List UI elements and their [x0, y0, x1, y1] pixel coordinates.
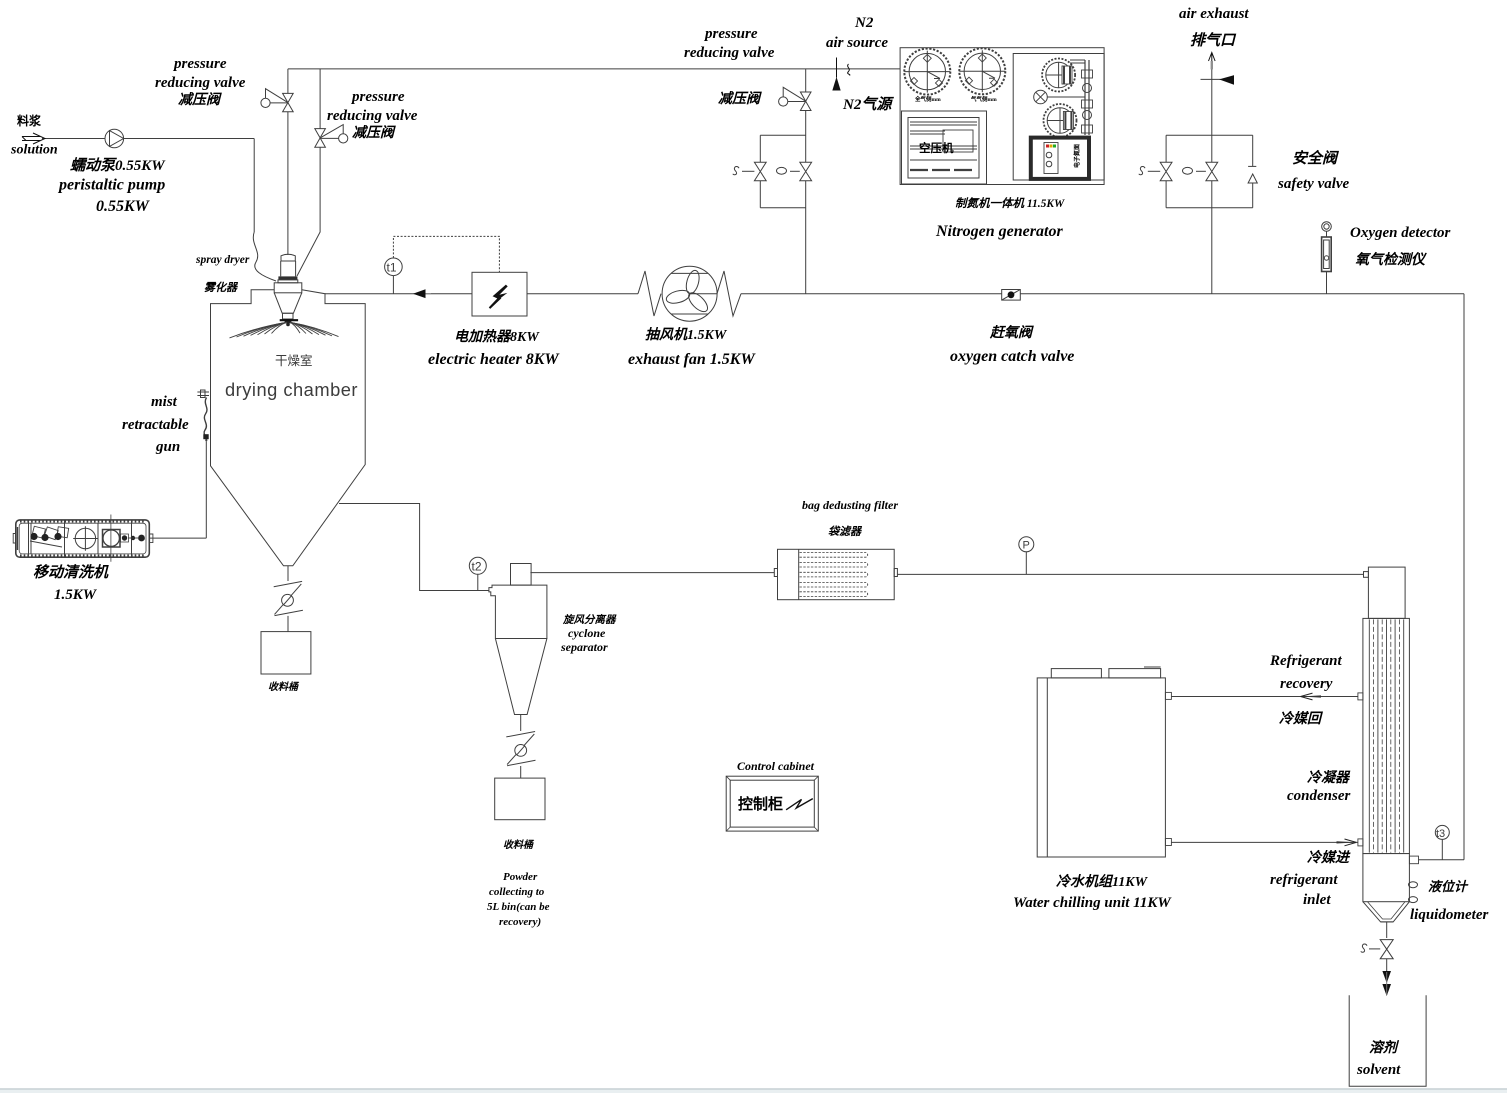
mobile washing machine	[13, 515, 153, 562]
svg-text:N2气源: N2气源	[842, 96, 894, 113]
wire valve to cyclone bin	[520, 766, 522, 778]
air compressor box	[902, 111, 987, 184]
inlet arrow	[1337, 841, 1357, 843]
svg-text:减压阀: 减压阀	[352, 124, 396, 141]
svg-text:cyclone: cyclone	[568, 626, 606, 640]
svg-text:5L bin(can be: 5L bin(can be	[487, 901, 550, 913]
svg-text:Oxygen detector: Oxygen detector	[1350, 225, 1451, 241]
svg-text:air exhaust: air exhaust	[1179, 6, 1249, 22]
svg-text:收料桶: 收料桶	[503, 839, 535, 851]
t1 sensor	[385, 258, 403, 276]
svg-text:recovery): recovery)	[499, 916, 541, 928]
svg-text:recovery: recovery	[1280, 676, 1333, 692]
wire branch1 down to atomizer	[287, 69, 289, 255]
wire t2 drop	[477, 574, 479, 590]
svg-text:bag dedusting filter: bag dedusting filter	[802, 498, 898, 512]
svg-text:t3: t3	[1436, 828, 1445, 840]
svg-text:排气口: 排气口	[1190, 32, 1237, 49]
bottom window edge strip	[0, 1088, 1507, 1089]
svg-text:P: P	[1023, 540, 1030, 552]
svg-text:液位计: 液位计	[1428, 879, 1469, 894]
cyclone separator	[489, 564, 547, 715]
svg-text:冷媒回: 冷媒回	[1279, 710, 1324, 727]
svg-text:Nitrogen generator: Nitrogen generator	[935, 223, 1063, 240]
svg-text:Refrigerant: Refrigerant	[1269, 653, 1343, 669]
spray fan lines	[230, 320, 339, 338]
svg-text:1.5KW: 1.5KW	[54, 587, 98, 603]
control cabinet	[726, 776, 818, 831]
wire refrigerant recovery line	[1171, 696, 1357, 698]
wire t1 sensor loop	[392, 276, 394, 294]
svg-text:t2: t2	[472, 560, 482, 574]
solvent tank	[1349, 995, 1426, 1086]
solution inlet arrow	[22, 133, 45, 144]
svg-text:0.55KW: 0.55KW	[96, 198, 151, 215]
wire condenser drain	[1386, 922, 1388, 938]
safety valve bypass box	[1166, 135, 1253, 207]
valve V3 left of bypass	[1139, 162, 1172, 180]
peristaltic pump P1	[105, 129, 124, 148]
svg-text:condenser: condenser	[1287, 788, 1350, 804]
air exhaust arrow	[1209, 53, 1216, 62]
membrane gauge 1	[1042, 59, 1075, 92]
flexible joint left of fan	[638, 271, 661, 316]
svg-text:全气侧mm: 全气侧mm	[914, 95, 941, 103]
svg-text:liquidometer: liquidometer	[1410, 907, 1488, 923]
wire P gauge drop	[1025, 552, 1027, 575]
svg-text:pressure: pressure	[172, 56, 227, 72]
svg-text:雾化器: 雾化器	[204, 281, 239, 294]
svg-text:oxygen catch valve: oxygen catch valve	[950, 348, 1074, 365]
svg-text:collecting to: collecting to	[489, 886, 545, 898]
svg-text:氧气检测仪: 氧气检测仪	[1355, 251, 1427, 268]
svg-text:收料桶: 收料桶	[268, 681, 300, 693]
pressure reducing valve PRV1	[261, 89, 293, 112]
exhaust fan F1	[662, 266, 717, 321]
svg-text:冷水机组11KW: 冷水机组11KW	[1056, 873, 1149, 890]
svg-text:drying chamber: drying chamber	[225, 379, 358, 400]
wire main nitrogen loop pipe	[741, 294, 1464, 860]
svg-text:separator: separator	[560, 640, 608, 654]
gauge blower 1	[904, 49, 950, 95]
valve V2 bypass right	[777, 162, 812, 180]
svg-text:reducing valve: reducing valve	[155, 75, 246, 91]
oxygen detector	[1322, 222, 1332, 232]
svg-text:冷凝器: 冷凝器	[1307, 769, 1351, 786]
nitrogen generator cabinet	[900, 48, 1104, 185]
wire bag filter to condenser	[897, 573, 1363, 575]
svg-text:安全阀: 安全阀	[1292, 149, 1340, 167]
water chilling unit	[1037, 667, 1171, 857]
N2 source connection tick	[833, 58, 850, 91]
flow arrow into chamber	[418, 293, 431, 295]
svg-text:旋风分离器: 旋风分离器	[562, 613, 617, 626]
wire t3 drop	[1441, 839, 1443, 859]
svg-text:空压机: 空压机	[919, 141, 954, 155]
spray dryer atomizer	[274, 254, 302, 326]
wire refrigerant inlet line	[1171, 841, 1357, 843]
svg-text:safety valve: safety valve	[1277, 176, 1350, 192]
svg-text:制氮机一体机 11.5KW: 制氮机一体机 11.5KW	[955, 197, 1065, 210]
svg-text:air source: air source	[826, 35, 888, 51]
svg-text:减压阀: 减压阀	[718, 90, 762, 107]
collection bin chamber	[261, 632, 311, 674]
svg-text:solution: solution	[10, 143, 58, 158]
wire chamber drain	[287, 566, 289, 581]
valve V4 middle of bypass	[1183, 162, 1218, 180]
svg-text:reducing valve: reducing valve	[327, 108, 418, 124]
svg-text:reducing valve: reducing valve	[684, 45, 775, 61]
svg-text:抽风机1.5KW: 抽风机1.5KW	[645, 326, 728, 343]
condenser	[1358, 567, 1419, 922]
svg-text:Water chilling unit 11KW: Water chilling unit 11KW	[1013, 895, 1172, 911]
bag dedusting filter	[774, 549, 897, 599]
wire valve to chamber bin	[287, 616, 289, 632]
svg-text:减压阀: 减压阀	[178, 91, 222, 108]
svg-text:电加热器8KW: 电加热器8KW	[454, 328, 540, 345]
svg-text:蠕动泵0.55KW: 蠕动泵0.55KW	[70, 157, 166, 174]
svg-text:inlet: inlet	[1303, 892, 1331, 908]
drying chamber	[211, 290, 366, 566]
svg-text:solvent: solvent	[1356, 1062, 1401, 1078]
svg-text:Powder: Powder	[503, 871, 538, 883]
svg-text:refrigerant: refrigerant	[1270, 872, 1338, 888]
svg-text:peristaltic pump: peristaltic pump	[57, 177, 165, 194]
wire drain arrows	[1386, 959, 1388, 972]
piping right column	[1085, 60, 1089, 135]
small round valve	[1034, 90, 1048, 104]
svg-text:electric heater 8KW: electric heater 8KW	[428, 351, 560, 368]
svg-text:干燥室: 干燥室	[275, 353, 313, 368]
wire chamber outlet to cyclone	[339, 504, 489, 591]
svg-text:气气侧mm: 气气侧mm	[970, 95, 997, 103]
pressure reducing valve PRV3	[779, 87, 811, 110]
wire heater to fan	[527, 293, 638, 295]
svg-text:spray dryer: spray dryer	[195, 254, 250, 266]
pressure reducing valve PRV2	[315, 125, 348, 148]
wire gun supply riser	[149, 441, 206, 538]
wire cyclone drain	[520, 715, 522, 732]
wire solution feed line	[42, 138, 105, 140]
wire hot air pipe heater to chamber	[325, 293, 472, 295]
slide valve chamber drain	[274, 581, 303, 615]
svg-text:袋滤器: 袋滤器	[828, 525, 863, 538]
oxygen catch valve	[1002, 290, 1021, 301]
wire branch2	[297, 69, 320, 276]
wire exhaust riser	[1211, 69, 1213, 294]
svg-text:pressure: pressure	[703, 26, 758, 42]
P gauge	[1019, 537, 1034, 552]
svg-text:N2: N2	[854, 15, 874, 31]
svg-text:retractable: retractable	[122, 417, 189, 433]
gauge blower 2	[959, 48, 1005, 94]
recovery arrow	[1301, 695, 1321, 697]
svg-text:料浆: 料浆	[17, 113, 42, 128]
safety valve SV1 spring type	[1248, 166, 1257, 183]
collection bin cyclone	[495, 778, 545, 820]
flexible joint right of fan	[717, 271, 741, 316]
membrane unit box	[1013, 54, 1104, 181]
control panel	[1031, 138, 1089, 179]
mist retractable gun	[197, 390, 209, 441]
svg-text:Control cabinet: Control cabinet	[737, 759, 815, 773]
svg-text:移动清洗机: 移动清洗机	[33, 564, 109, 581]
wire branch3 N2 supply down	[805, 69, 807, 294]
wire flexible feed hose to atomizer	[253, 232, 276, 281]
drain valve condenser	[1361, 940, 1393, 959]
slide valve cyclone drain	[506, 732, 535, 766]
svg-text:冷媒进: 冷媒进	[1307, 849, 1351, 866]
wire cyclone outlet to bag filter	[530, 572, 774, 574]
bypass loop under PRV3	[760, 135, 805, 207]
svg-text:控制柜: 控制柜	[738, 795, 783, 813]
valve V1 bypass left	[733, 162, 766, 180]
wire N2 top header	[288, 68, 900, 70]
svg-text:exhaust fan 1.5KW: exhaust fan 1.5KW	[628, 351, 756, 368]
svg-text:gun: gun	[155, 439, 180, 455]
svg-text:pressure: pressure	[350, 89, 405, 105]
exhaust flow tick	[1201, 78, 1221, 80]
svg-text:mist: mist	[151, 394, 178, 410]
t2 sensor	[469, 557, 486, 574]
svg-text:t1: t1	[387, 261, 397, 275]
membrane gauge 2	[1044, 104, 1077, 137]
svg-text:赶氧阀: 赶氧阀	[989, 324, 1034, 341]
svg-text:电子氮面: 电子氮面	[1073, 144, 1081, 168]
electric heater E1	[472, 272, 527, 316]
t3 sensor	[1435, 825, 1449, 839]
svg-text:溶剂: 溶剂	[1369, 1039, 1400, 1056]
wire pump to downcomer	[124, 139, 255, 233]
